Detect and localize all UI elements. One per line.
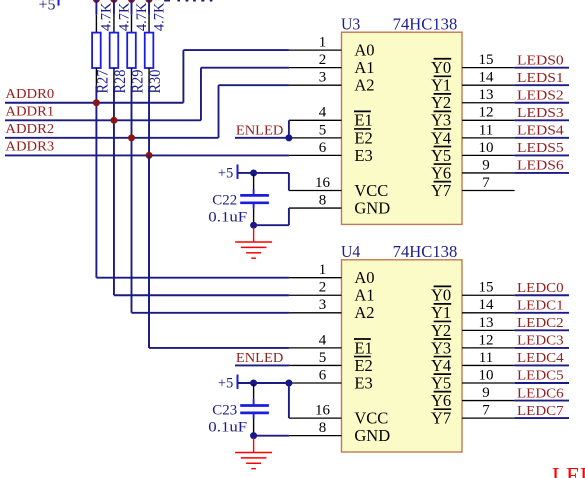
wire +5 to junction (U4) [238,382,254,384]
wire ADDR1 horizontal [5,119,201,121]
svg-text:Y4: Y4 [431,356,451,375]
svg-text:2: 2 [319,52,327,68]
wire net column R30 to bus rows [148,86,150,348]
svg-text:0.1uF: 0.1uF [208,419,247,436]
svg-text:4: 4 [319,105,327,121]
svg-text:74HC138: 74HC138 [393,15,458,34]
svg-text:Y1: Y1 [431,76,451,95]
svg-text:12: 12 [479,105,494,121]
svg-text:16: 16 [315,175,331,191]
svg-text:C23: C23 [212,402,237,419]
svg-text:1: 1 [319,262,327,278]
wire junction to VCC corner (U3) [254,172,289,174]
wire net column R29 to bus rows [131,86,133,313]
svg-text:Y5: Y5 [431,146,451,165]
svg-text:C22: C22 [212,191,237,208]
svg-text:Y0: Y0 [431,58,451,77]
svg-text:GND: GND [354,426,390,445]
svg-text:4.7K: 4.7K [151,2,167,31]
wire net LEDS4 [515,137,569,139]
svg-text:11: 11 [479,122,493,138]
svg-text:+5: +5 [38,0,55,13]
svg-text:LEDS0: LEDS0 [517,52,564,67]
svg-text:ADDR2: ADDR2 [5,121,54,136]
wire net LEDS6 [515,172,569,174]
wire net LEDS1 [515,84,569,86]
capacitor C22 0.1uF [240,174,269,223]
svg-text:Y3: Y3 [431,111,451,130]
svg-text:LEDS3: LEDS3 [517,105,564,120]
svg-text:LEDS5: LEDS5 [517,140,564,155]
svg-text:5: 5 [319,350,327,366]
wire GND corner up (U3) [288,208,290,225]
svg-text:A2: A2 [354,303,374,322]
wire net column R28 to bus rows [113,86,115,296]
svg-text:E2: E2 [354,128,372,147]
U4 pin 12 (Y3) stub+number+label [431,332,515,357]
junction ADDR0 / column [93,99,100,106]
wire net LEDC0 [515,294,569,296]
svg-text:9: 9 [482,157,490,173]
svg-text:0.1uF: 0.1uF [208,209,247,226]
junction bottom of C23 [250,432,257,439]
svg-text:13: 13 [479,315,494,331]
cropped text fragments top edge [164,0,212,2]
power +5 top rail symbol [38,0,149,13]
capacitor C23 0.1uF [240,385,269,435]
svg-text:Y6: Y6 [431,163,451,182]
svg-text:LEDS2: LEDS2 [517,87,564,102]
svg-text:A2: A2 [354,76,374,95]
wire net column R27 to bus rows [95,86,97,278]
U3 pin 2 (A1) stub+number+label [289,52,375,77]
U4 pin 16 (VCC) stub+number+label [289,403,388,428]
svg-text:U4: U4 [341,242,360,261]
wire ADDR1 to U3 pin 2 [201,67,289,69]
U4 pin 8 (GND) stub+number+label [289,420,390,445]
svg-text:Y6: Y6 [431,391,451,410]
U3 pin 6 (E3) stub+number+label [289,140,373,165]
junction U4 E3/VCC branch [285,380,292,387]
U3 pin 13 (Y2) stub+number+label [431,87,515,112]
junction on +5 rail at R28 top [110,0,117,3]
U4 pin 15 (Y0) stub+number+label [431,280,515,305]
svg-text:LEDS1: LEDS1 [517,70,564,85]
svg-text:LEDS6: LEDS6 [517,158,564,173]
svg-text:16: 16 [315,403,331,419]
svg-text:LEDC5: LEDC5 [517,368,564,383]
wire ADDR2 to U3 pin 3 [219,84,289,86]
svg-text:E2: E2 [354,356,372,375]
U3 pin 16 (VCC) stub+number+label [289,175,388,200]
svg-text:12: 12 [479,332,494,348]
junction ADDR1 / column [110,117,117,124]
junction top of C23 [250,380,257,387]
wire ADDR3 branch horizontal to U4 pin 4 [149,347,289,349]
wire net column below R29 top [131,0,133,15]
wire net LEDS0 [515,67,569,69]
svg-text:1: 1 [319,35,327,51]
U4 pin 6 (E3) stub+number+label [289,367,373,392]
svg-text:7: 7 [482,403,490,419]
wire ADDR0 vertical riser [182,50,184,103]
svg-text:Y5: Y5 [431,373,451,392]
svg-text:10: 10 [479,140,494,156]
U4 pin 9 (Y6) stub+number+label [431,385,515,410]
wire ADDR3 branch down to U4 pin 4 row [148,155,150,348]
wire ADDR3 horizontal to U3 pin 6 [5,154,289,156]
svg-text:LEDC0: LEDC0 [517,280,564,295]
U4 pin 10 (Y5) stub+number+label [431,367,515,392]
svg-text:ENLED: ENLED [236,350,283,365]
wire net LEDC4 [515,364,569,366]
wire net LEDC6 [515,400,569,402]
junction ADDR3 / column [146,152,153,159]
svg-text:Y7: Y7 [431,409,451,428]
wire column to U4 pin 2 [114,294,289,296]
svg-text:8: 8 [319,192,327,208]
svg-text:ADDR0: ADDR0 [5,86,54,101]
wire +5 to junction (U3) [238,172,254,174]
svg-text:4.7K: 4.7K [134,2,150,31]
wire ADDR1 vertical riser [200,68,202,121]
svg-text:+5: +5 [218,376,233,392]
wire ENLED to U4 pin 5 [235,364,289,366]
svg-text:+5: +5 [218,166,233,182]
svg-text:ADDR1: ADDR1 [5,104,54,119]
svg-text:LEDC7: LEDC7 [517,403,564,418]
svg-text:7: 7 [482,175,490,191]
wire net LEDS3 [515,119,569,121]
svg-text:6: 6 [319,367,327,383]
svg-text:LEDC3: LEDC3 [517,333,564,348]
svg-text:4.7K: 4.7K [99,2,115,31]
svg-text:U3: U3 [341,15,360,34]
svg-text:LEDS4: LEDS4 [517,123,564,138]
wire ADDR2 vertical riser [218,85,220,138]
svg-text:11: 11 [479,350,493,366]
wire net LEDC2 [515,329,569,331]
svg-text:Y2: Y2 [431,93,451,112]
svg-text:A0: A0 [354,268,374,287]
wire net LEDC7 [515,417,569,419]
svg-text:4: 4 [319,332,327,348]
wire ENLED to U3 pin 5 [235,137,289,139]
svg-text:10: 10 [479,367,494,383]
wire net LEDC3 [515,347,569,349]
U4 pin 1 (A0) stub+number+label [289,262,375,287]
svg-text:A1: A1 [354,286,374,305]
wire cap bottom to GND corner (U3) [254,224,289,226]
ground symbol (U3) [235,227,272,258]
U4 pin 13 (Y2) stub+number+label [431,315,515,340]
power +5 symbol (U3) [218,164,238,181]
svg-text:Y0: Y0 [431,286,451,305]
U4 pin 14 (Y1) stub+number+label [431,297,515,322]
junction ADDR2 / column [128,134,135,141]
wire net LEDS5 [515,154,569,156]
svg-text:ENLED: ENLED [236,122,283,137]
svg-text:8: 8 [319,420,327,436]
wire VCC corner down (U3) [288,173,290,191]
wire ADDR0 horizontal [5,102,183,104]
svg-text:E1: E1 [354,338,372,357]
svg-text:15: 15 [479,280,494,296]
junction on +5 rail at R30 top [146,0,153,3]
svg-text:14: 14 [479,297,495,313]
wire net LEDS2 [515,102,569,104]
svg-text:A0: A0 [354,41,374,60]
U4 pin 4 (E1) stub+number+label [289,332,373,357]
svg-text:ADDR3: ADDR3 [5,139,54,154]
U4 pin 5 (E2) stub+number+label [289,350,373,375]
wire net LEDC1 [515,312,569,314]
svg-text:LEDC1: LEDC1 [517,298,564,313]
wire ADDR2 horizontal [5,137,219,139]
junction bottom of C22 [250,222,257,229]
svg-text:E3: E3 [354,373,372,392]
svg-text:74HC138: 74HC138 [393,242,458,261]
svg-text:GND: GND [354,198,390,217]
U3 pin 8 (GND) stub+number+label [289,192,390,217]
wire column to U4 pin 1 [96,277,289,279]
U4 pin 7 (Y7) stub+number+label [431,403,515,428]
U3 pin 1 (A0) stub+number+label [289,35,375,60]
svg-text:3: 3 [319,70,327,86]
junction ENLED / pin4 tie [285,134,292,141]
U3 pin 7 (Y7) stub+number+label [431,175,515,200]
wire U3 pin4-pin5 tie [288,120,290,138]
U4 pin 11 (Y4) stub+number+label [431,350,515,375]
svg-text:Y7: Y7 [431,181,451,200]
wire cap bottom to GND pin (U4) [254,435,289,437]
svg-text:E3: E3 [354,146,372,165]
U3 pin 15 (Y0) stub+number+label [431,52,515,77]
wire net column below R27 top [95,0,97,15]
U3 pin 4 (E1) stub+number+label [289,105,373,130]
svg-text:Y1: Y1 [431,303,451,322]
IC U3 74HC138 body [342,32,463,224]
svg-text:LED: LED [552,464,585,478]
resistor R30 4.7K [145,15,154,86]
U3 pin 14 (Y1) stub+number+label [431,70,515,95]
resistor R28 4.7K [110,15,119,86]
junction on +5 rail at R27 top [93,0,100,3]
wire junction to VCC corner (U4) [254,382,289,384]
U3 pin 5 (E2) stub+number+label [289,122,373,147]
wire column to U4 pin 3 [132,312,289,314]
ground symbol (U4) [235,438,272,469]
svg-text:2: 2 [319,280,327,296]
svg-text:Y4: Y4 [431,128,451,147]
svg-text:9: 9 [482,385,490,401]
svg-text:VCC: VCC [354,181,388,200]
junction top of C22 [250,169,257,176]
power +5 symbol (U4) [218,375,238,392]
svg-text:3: 3 [319,297,327,313]
junction on +5 rail at R29 top [128,0,135,3]
svg-text:E1: E1 [354,111,372,130]
svg-text:5: 5 [319,122,327,138]
resistor R29 4.7K [127,15,136,86]
svg-text:LEDC4: LEDC4 [517,350,564,365]
resistor R27 4.7K [92,15,101,86]
U3 pin 10 (Y5) stub+number+label [431,140,515,165]
svg-text:VCC: VCC [354,409,388,428]
wire net LEDC5 [515,382,569,384]
IC U4 74HC138 body [342,260,463,452]
wire ADDR0 to U3 pin 1 [183,49,289,51]
U3 pin 9 (Y6) stub+number+label [431,157,515,182]
U4 pin 2 (A1) stub+number+label [289,280,375,305]
wire VCC corner down (U4) [288,383,290,418]
svg-text:14: 14 [479,70,495,86]
svg-text:Y3: Y3 [431,338,451,357]
svg-text:LEDC6: LEDC6 [517,385,564,400]
svg-text:A1: A1 [354,58,374,77]
U3 pin 12 (Y3) stub+number+label [431,105,515,130]
wire net column below R30 top [148,0,150,15]
svg-text:13: 13 [479,87,494,103]
wire net column below R28 top [113,0,115,15]
svg-text:15: 15 [479,52,494,68]
svg-text:Y2: Y2 [431,321,451,340]
svg-text:6: 6 [319,140,327,156]
svg-text:LEDC2: LEDC2 [517,315,564,330]
svg-text:4.7K: 4.7K [116,2,132,31]
U3 pin 11 (Y4) stub+number+label [431,122,515,147]
U4 pin 3 (A2) stub+number+label [289,297,375,322]
U3 pin 3 (A2) stub+number+label [289,70,375,95]
